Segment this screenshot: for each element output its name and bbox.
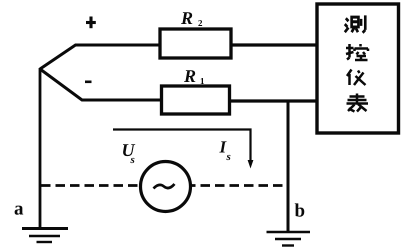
svg-text:2: 2 [198,18,203,28]
instrument box (measuring instrument) [317,4,399,133]
ground a [22,227,68,230]
wire: left vertical from node down to ground a [39,68,42,228]
svg-text:R: R [183,66,196,86]
dashed line a-b [41,184,287,187]
resistor R2 [160,29,231,58]
CJK char "biao" (meter) [347,94,369,112]
CJK char "yi" (instrument) [347,70,366,86]
svg-text:a: a [14,199,24,220]
svg-text:s: s [130,154,135,166]
svg-text:1: 1 [200,76,205,86]
AC source circle [141,162,191,212]
ground b [267,231,311,234]
bracket for Us / Is with arrow [113,130,251,165]
wire: plus lead from node to R2 (diagonal + horizontal) [40,45,160,69]
wire: minus lead from node to R1 (diagonal + horizontal) [40,69,162,100]
svg-text:b: b [295,201,306,222]
svg-text:R: R [180,8,193,28]
CJK char "kong" (control) [346,44,368,60]
plus polarity mark [86,17,96,29]
svg-text:s: s [226,151,231,163]
minus polarity mark [85,81,92,84]
wire: R1 to instrument box [230,99,318,102]
wire: vertical branch down to ground b [287,101,290,232]
CJK char "ce" (measure) [345,15,365,32]
wire: R2 to instrument box [232,43,319,46]
tilde inside source [154,184,175,189]
resistor R1 [162,86,230,114]
